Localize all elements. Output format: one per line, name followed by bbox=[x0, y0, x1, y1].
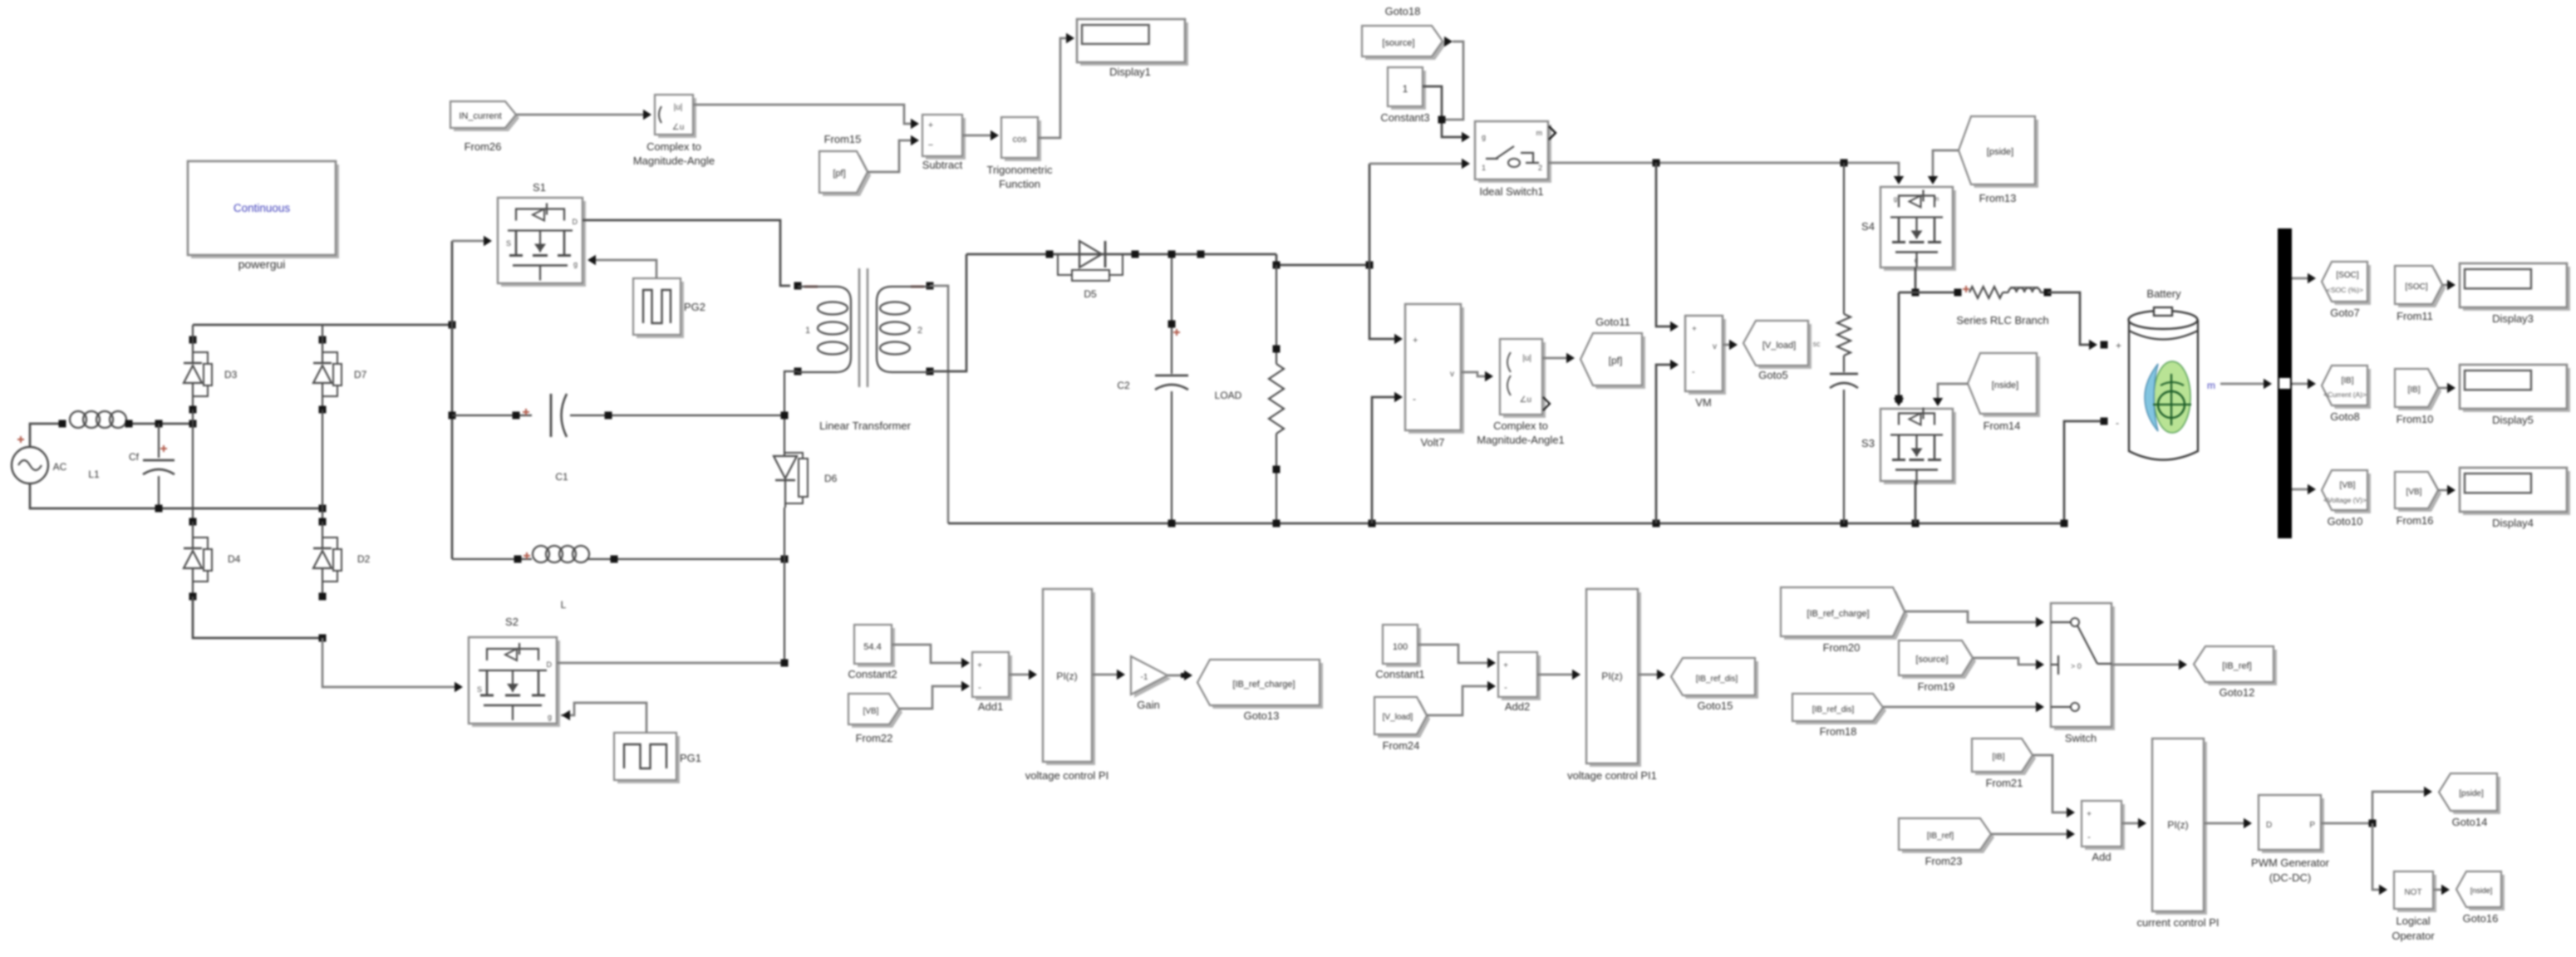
svg-text:+: + bbox=[977, 661, 982, 670]
svg-text:-: - bbox=[1504, 683, 1507, 693]
svg-text:Complex to: Complex to bbox=[646, 140, 701, 153]
bus selector bar bbox=[2278, 228, 2292, 538]
svg-text:From19: From19 bbox=[1918, 680, 1955, 693]
svg-text:<SOC (%)>: <SOC (%)> bbox=[2327, 286, 2363, 294]
svg-text:Goto13: Goto13 bbox=[1244, 709, 1280, 722]
svg-text:1: 1 bbox=[805, 326, 810, 336]
svg-text:D3: D3 bbox=[224, 369, 238, 380]
svg-text:D6: D6 bbox=[824, 473, 838, 484]
svg-text:Display4: Display4 bbox=[2492, 517, 2534, 529]
svg-text:Switch: Switch bbox=[2065, 732, 2097, 744]
svg-text:AC: AC bbox=[53, 461, 67, 473]
resistor LOAD branch bbox=[1276, 265, 1277, 364]
svg-text:Battery: Battery bbox=[2146, 287, 2181, 300]
wire node B vertical x544 bbox=[451, 241, 454, 559]
svg-text:[IB_ref_dis]: [IB_ref_dis] bbox=[1812, 705, 1855, 714]
svg-text:Display5: Display5 bbox=[2492, 414, 2534, 426]
svg-text:|u|: |u| bbox=[1522, 354, 1531, 363]
svg-text:[IB_ref_charge]: [IB_ref_charge] bbox=[1232, 680, 1295, 690]
wire S3 source to bottom rail bbox=[1915, 481, 1917, 523]
svg-text:Magnitude-Angle1: Magnitude-Angle1 bbox=[1477, 434, 1565, 446]
svg-text:[IB_ref]: [IB_ref] bbox=[1927, 832, 1954, 841]
svg-text:[pside]: [pside] bbox=[1987, 147, 2013, 157]
svg-text:[V_load]: [V_load] bbox=[1383, 713, 1413, 722]
Series RLC Branch resistor bbox=[1963, 286, 1969, 292]
bridge bottom bus wire bbox=[189, 593, 197, 601]
svg-text:Goto16: Goto16 bbox=[2463, 912, 2499, 925]
block Add2 bbox=[1502, 655, 1541, 700]
Goto13 tag IB_ref_charge bbox=[1201, 663, 1323, 709]
svg-text:[pf]: [pf] bbox=[833, 169, 845, 179]
svg-text:NOT: NOT bbox=[2404, 888, 2421, 897]
svg-text:∠u: ∠u bbox=[672, 123, 685, 132]
wire PI1 to Goto15 bbox=[1638, 674, 1661, 676]
wire Add2 to voltage control PI1 bbox=[1537, 674, 1576, 676]
svg-text:S4: S4 bbox=[1861, 220, 1875, 233]
wire PI to Gain bbox=[1092, 674, 1121, 676]
svg-text:∠u: ∠u bbox=[1519, 395, 1531, 405]
wire Volt7 to CMA1 bbox=[1461, 372, 1489, 376]
svg-text:(DC-DC): (DC-DC) bbox=[2269, 871, 2312, 884]
From14 tag nside bbox=[1971, 356, 2040, 417]
From23 tag IB_ref bbox=[1902, 822, 1994, 853]
From22 tag VB bbox=[852, 697, 902, 728]
wire NOT to Goto16 bbox=[2433, 889, 2446, 891]
svg-text:From20: From20 bbox=[1823, 641, 1861, 654]
svg-text:Function: Function bbox=[999, 178, 1040, 190]
svg-text:D: D bbox=[2266, 821, 2272, 830]
svg-text:Goto12: Goto12 bbox=[2220, 686, 2255, 699]
wire S1 source connection bbox=[452, 240, 488, 243]
svg-text:Linear Transformer: Linear Transformer bbox=[819, 420, 911, 432]
wire From24 to Add2 bbox=[1427, 686, 1492, 715]
block Trigonometric Function cos bbox=[1005, 120, 1041, 161]
bottom rail of output stage bbox=[948, 523, 2064, 525]
svg-text:Continuous: Continuous bbox=[234, 202, 291, 214]
svg-text:Goto14: Goto14 bbox=[2452, 816, 2488, 828]
block voltage control PI1 bbox=[1590, 592, 1641, 767]
svg-text:[IB]: [IB] bbox=[2341, 376, 2353, 385]
svg-text:100: 100 bbox=[1393, 642, 1408, 652]
svg-text:From16: From16 bbox=[2397, 514, 2434, 527]
diode D6 bbox=[784, 448, 785, 456]
Series RLC Branch inductor bbox=[2003, 292, 2008, 293]
svg-text:D: D bbox=[547, 660, 553, 669]
wire PI to PWM Generator bbox=[2204, 822, 2248, 825]
svg-text:+: + bbox=[1503, 661, 1508, 670]
svg-text:Logical: Logical bbox=[2396, 915, 2430, 927]
wire node C down to S3 drain bbox=[1898, 292, 1900, 403]
svg-text:S: S bbox=[506, 239, 511, 248]
svg-text:2: 2 bbox=[1538, 164, 1542, 172]
wire Switch to Goto12 bbox=[2111, 664, 2183, 666]
svg-text:Goto5: Goto5 bbox=[1758, 369, 1787, 381]
svg-text:Operator: Operator bbox=[2392, 930, 2435, 942]
svg-text:d: d bbox=[1915, 257, 1918, 264]
diode D3 bbox=[192, 325, 194, 363]
svg-text:current control PI: current control PI bbox=[2137, 916, 2220, 929]
svg-text:[IB_ref]: [IB_ref] bbox=[2222, 661, 2251, 671]
svg-text:Subtract: Subtract bbox=[922, 159, 963, 171]
Gain block -1 bbox=[1134, 660, 1171, 698]
wire L1 to bridge node A bbox=[125, 423, 193, 425]
svg-text:Goto11: Goto11 bbox=[1595, 316, 1630, 328]
svg-text:Goto10: Goto10 bbox=[2328, 515, 2363, 528]
svg-text:[IB_ref_charge]: [IB_ref_charge] bbox=[1807, 609, 1869, 619]
svg-text:+: + bbox=[2087, 810, 2092, 819]
svg-text:Display3: Display3 bbox=[2492, 312, 2534, 325]
svg-text:[nside]: [nside] bbox=[2470, 886, 2493, 895]
svg-text:[nside]: [nside] bbox=[1992, 380, 2018, 390]
svg-text:D4: D4 bbox=[228, 553, 241, 565]
svg-text:Cf: Cf bbox=[129, 451, 140, 463]
svg-text:VM: VM bbox=[1695, 396, 1712, 409]
svg-text:Add2: Add2 bbox=[1505, 700, 1530, 713]
wire Volt7 minus to bottom rail bbox=[1372, 397, 1399, 523]
diode D4 bbox=[189, 518, 197, 526]
wire From21 to Add bbox=[2033, 755, 2071, 812]
wire From15 to Subtract bbox=[868, 140, 915, 172]
svg-text:m: m bbox=[2207, 380, 2215, 391]
svg-text:-1: -1 bbox=[1141, 673, 1148, 682]
capacitor C2 branch bbox=[1171, 254, 1172, 374]
wire Gain to Goto13 bbox=[1168, 675, 1188, 677]
svg-text:Constant3: Constant3 bbox=[1380, 111, 1429, 124]
svg-text:D5: D5 bbox=[1084, 288, 1097, 300]
Linear Transformer bbox=[794, 282, 802, 290]
node between D7 and D2 bbox=[319, 406, 327, 414]
Display4 block bbox=[2463, 471, 2570, 515]
wire CMA to Subtract bbox=[693, 105, 915, 124]
svg-text:Goto7: Goto7 bbox=[2330, 307, 2359, 319]
svg-text:S1: S1 bbox=[533, 181, 546, 194]
Goto14 tag pside bbox=[2442, 777, 2500, 814]
wire bridge to S2 source bbox=[322, 638, 459, 687]
svg-text:From18: From18 bbox=[1820, 725, 1857, 738]
diode D2 bbox=[322, 522, 323, 548]
Goto8 tag IB bbox=[2325, 369, 2371, 409]
wire D6 to S2 drain node bbox=[784, 508, 785, 663]
svg-text:From24: From24 bbox=[1383, 739, 1420, 752]
svg-text:From15: From15 bbox=[824, 133, 862, 145]
wire Add to current control PI bbox=[2121, 822, 2142, 825]
svg-text:[VB]: [VB] bbox=[2340, 481, 2356, 490]
Constant2 block 54.4 bbox=[858, 628, 895, 667]
svg-text:Magnitude-Angle: Magnitude-Angle bbox=[633, 155, 715, 167]
svg-text:m: m bbox=[1934, 195, 1939, 203]
wire PG2 to S1 gate bbox=[592, 260, 656, 278]
svg-text:v: v bbox=[1713, 342, 1717, 351]
svg-text:[VB]: [VB] bbox=[863, 707, 879, 716]
svg-text:m: m bbox=[1536, 129, 1543, 137]
Switch block bbox=[2054, 606, 2115, 730]
svg-text:-: - bbox=[2116, 417, 2119, 429]
svg-text:<Voltage (V)>: <Voltage (V)> bbox=[2323, 496, 2367, 504]
wire AC top to L1 bbox=[30, 424, 66, 447]
svg-text:PI(z): PI(z) bbox=[1056, 670, 1077, 682]
svg-text:[IB_ref_dis]: [IB_ref_dis] bbox=[1696, 675, 1738, 684]
wire transformer primary bottom to D6 bbox=[784, 371, 798, 448]
svg-text:2: 2 bbox=[917, 326, 922, 336]
inductor L bbox=[452, 558, 532, 560]
svg-text:PG1: PG1 bbox=[680, 752, 701, 764]
Display3 block bbox=[2463, 267, 2570, 311]
wire Goto18 tag to gate node bbox=[1442, 42, 1463, 120]
svg-text:C1: C1 bbox=[555, 471, 568, 483]
capacitor C1 bbox=[452, 415, 532, 416]
svg-text:Display1: Display1 bbox=[1109, 66, 1151, 78]
diode D7 bbox=[322, 325, 323, 363]
svg-text:[pside]: [pside] bbox=[2459, 789, 2484, 798]
block current control PI bbox=[2156, 742, 2207, 915]
block Subtract bbox=[926, 118, 966, 159]
wire battery minus to bottom rail bbox=[2101, 418, 2108, 425]
svg-text:cos: cos bbox=[1012, 135, 1027, 145]
wire Add1 to voltage control PI bbox=[1009, 674, 1033, 676]
wire From16 to Display4 bbox=[2438, 489, 2451, 492]
svg-text:PI(z): PI(z) bbox=[2167, 819, 2188, 831]
battery recycle icon bbox=[2154, 361, 2190, 433]
snubber branch capacitor bbox=[1843, 356, 1845, 372]
svg-text:voltage control PI1: voltage control PI1 bbox=[1567, 769, 1657, 782]
svg-text:S: S bbox=[477, 685, 482, 694]
svg-text:g: g bbox=[1894, 195, 1897, 203]
svg-text:Trigonometric: Trigonometric bbox=[987, 164, 1053, 176]
pulse generator PG1 bbox=[617, 736, 680, 783]
svg-text:Ideal Switch1: Ideal Switch1 bbox=[1479, 185, 1543, 198]
svg-text:From26: From26 bbox=[465, 140, 502, 153]
inductor L1 bbox=[70, 411, 86, 428]
wire bus to Goto10 bbox=[2292, 488, 2312, 491]
From18 tag IB_ref_dis bbox=[1796, 697, 1886, 724]
svg-text:Series RLC Branch: Series RLC Branch bbox=[1956, 314, 2048, 326]
svg-text:-: - bbox=[2087, 832, 2091, 842]
wire secondary top to bottom rail bbox=[930, 286, 948, 523]
block Complex to Magnitude-Angle1 bbox=[1503, 342, 1546, 418]
svg-text:-: - bbox=[1692, 367, 1695, 377]
wire PWM to Goto14 and NOT bbox=[2321, 792, 2428, 823]
wire Series RLC to battery plus bbox=[2048, 292, 2094, 345]
wire From19 to Switch in2 bbox=[1973, 658, 2040, 665]
svg-text:Add1: Add1 bbox=[978, 700, 1003, 713]
svg-text:[pf]: [pf] bbox=[1609, 355, 1623, 366]
wire rail to VM plus bbox=[1656, 163, 1674, 326]
diode D5 bbox=[1079, 241, 1080, 267]
wire S1 drain to transformer primary top bbox=[583, 220, 790, 286]
wire secondary bottom up to top rail bbox=[930, 254, 966, 371]
block VM voltage measurement bbox=[1689, 319, 1726, 395]
svg-text:powergui: powergui bbox=[238, 258, 286, 271]
svg-text:D: D bbox=[573, 218, 578, 226]
svg-text:LOAD: LOAD bbox=[1215, 390, 1242, 401]
svg-text:From21: From21 bbox=[1986, 777, 2023, 789]
svg-text:1: 1 bbox=[1482, 164, 1486, 172]
svg-text:Gain: Gain bbox=[1137, 699, 1159, 711]
Goto16 tag nside bbox=[2460, 875, 2505, 910]
svg-text:S3: S3 bbox=[1861, 437, 1875, 449]
wire From26 to Complex to Magnitude-Angle bbox=[516, 114, 647, 116]
svg-text:[V_load]: [V_load] bbox=[1762, 341, 1796, 351]
Constant3 block bbox=[1391, 71, 1426, 110]
svg-text:C2: C2 bbox=[1117, 380, 1130, 391]
svg-text:L1: L1 bbox=[88, 469, 100, 480]
svg-text:From22: From22 bbox=[856, 732, 893, 744]
node C horizontal wire bbox=[1899, 292, 1958, 294]
svg-text:Goto8: Goto8 bbox=[2330, 410, 2359, 423]
wire PG1 to S2 gate bbox=[561, 703, 646, 733]
svg-text:54.4: 54.4 bbox=[863, 642, 881, 652]
bridge top bus bbox=[193, 324, 452, 326]
Constant1 block 100 bbox=[1386, 628, 1421, 667]
svg-text:S2: S2 bbox=[505, 616, 519, 628]
From10 tag IB bbox=[2398, 372, 2441, 410]
wire VM to Goto5 bbox=[1723, 344, 1733, 346]
Goto5 tag V_load bbox=[1747, 324, 1812, 369]
Goto12 tag IB_ref bbox=[2197, 650, 2277, 685]
From13 tag pside bbox=[1962, 120, 2038, 188]
svg-text:|u|: |u| bbox=[674, 103, 683, 112]
wire From14 to S3 gate bbox=[1938, 384, 1968, 403]
svg-text:Volt7: Volt7 bbox=[1421, 436, 1445, 449]
svg-text:From10: From10 bbox=[2397, 413, 2434, 425]
svg-text:Constant2: Constant2 bbox=[848, 668, 897, 680]
svg-text:+: + bbox=[928, 120, 933, 130]
wire Subtract to Trigonometric Function bbox=[962, 135, 995, 137]
svg-text:IN_current: IN_current bbox=[459, 111, 501, 121]
svg-text:[IB]: [IB] bbox=[2407, 385, 2420, 395]
From20 tag IB_ref_charge bbox=[1784, 591, 1908, 640]
svg-text:g: g bbox=[548, 713, 552, 721]
block Add bbox=[2085, 804, 2125, 850]
block Add1 bbox=[976, 655, 1012, 700]
block Complex to Magnitude-Angle U-CMA bbox=[658, 98, 696, 138]
Display1 block bbox=[1080, 22, 1188, 66]
pulse generator PG2 bbox=[637, 282, 684, 338]
wire bus to Goto8 bbox=[2292, 383, 2312, 385]
Ideal Switch1 block bbox=[1478, 125, 1551, 183]
From21 tag IB bbox=[1975, 742, 2036, 775]
Goto10 tag VB bbox=[2325, 474, 2371, 513]
wire CMA1 to Goto11 bbox=[1542, 357, 1571, 360]
svg-text:Goto18: Goto18 bbox=[1385, 5, 1421, 17]
svg-text:From23: From23 bbox=[1925, 855, 1963, 867]
svg-text:[IB]: [IB] bbox=[1992, 753, 2004, 762]
svg-text:[source]: [source] bbox=[1915, 655, 1948, 665]
Goto7 tag SOC bbox=[2325, 265, 2371, 305]
svg-text:sc: sc bbox=[1813, 340, 1821, 348]
svg-text:[source]: [source] bbox=[1382, 38, 1414, 48]
svg-text:+: + bbox=[1413, 336, 1418, 346]
From11 tag SOC bbox=[2398, 269, 2446, 307]
svg-text:v: v bbox=[1450, 370, 1454, 379]
wire Constant3 to Ideal Switch1 gate bbox=[1423, 86, 1466, 137]
svg-text:+: + bbox=[2116, 340, 2121, 351]
wire S4 source to node C bbox=[1915, 267, 1917, 292]
wire AC bottom rail bbox=[30, 483, 322, 508]
wire From18 to Switch in3 bbox=[1883, 706, 2040, 709]
svg-text:voltage control PI: voltage control PI bbox=[1025, 769, 1109, 782]
wire From11 to Display3 bbox=[2442, 284, 2451, 287]
wire Constant2 to Add1 bbox=[892, 645, 966, 663]
From16 tag VB bbox=[2398, 475, 2441, 512]
svg-text:g: g bbox=[573, 260, 578, 268]
svg-text:PG2: PG2 bbox=[684, 301, 705, 313]
svg-text:-: - bbox=[978, 683, 981, 693]
From26 tag IN_current bbox=[454, 105, 519, 131]
node between D3 and D4 bbox=[189, 406, 197, 414]
svg-text:-: - bbox=[1413, 393, 1416, 405]
svg-text:D2: D2 bbox=[357, 553, 371, 565]
svg-text:PI(z): PI(z) bbox=[1601, 670, 1622, 682]
wire rail step at LOAD bbox=[1276, 254, 1369, 265]
wire rail into Ideal Switch1 bbox=[1369, 163, 1466, 165]
wire Ideal Switch1 to S4 drain rail bbox=[1548, 163, 1899, 181]
svg-text:From13: From13 bbox=[1979, 192, 2017, 204]
Logical Operator NOT block bbox=[2397, 875, 2436, 912]
svg-text:P: P bbox=[2309, 821, 2315, 830]
wire bus to Goto7 bbox=[2292, 277, 2312, 280]
block voltage control PI bbox=[1046, 592, 1095, 765]
svg-text:From14: From14 bbox=[1984, 420, 2021, 432]
svg-text:+: + bbox=[1692, 325, 1697, 334]
PWM Generator block bbox=[2262, 798, 2324, 853]
svg-text:[SOC]: [SOC] bbox=[2405, 282, 2427, 292]
From24 tag V_load bbox=[1378, 700, 1430, 738]
From19 tag source bbox=[1902, 644, 1976, 679]
svg-text:PWM Generator: PWM Generator bbox=[2251, 856, 2330, 869]
wire bottom rail to VM minus bbox=[1656, 365, 1674, 523]
top rail of output stage bbox=[966, 253, 1276, 256]
block Volt7 voltage measurement bbox=[1408, 307, 1464, 434]
AC voltage source bbox=[12, 447, 48, 483]
svg-text:−: − bbox=[928, 140, 933, 150]
svg-text:<Current (A)>: <Current (A)> bbox=[2323, 390, 2367, 399]
wire From20 to Switch in1 bbox=[1905, 611, 2040, 622]
svg-text:Add: Add bbox=[2092, 851, 2111, 863]
wire Constant1 to Add2 bbox=[1418, 645, 1492, 663]
svg-text:> 0: > 0 bbox=[2071, 662, 2082, 670]
wire From22 to Add1 bbox=[899, 686, 966, 709]
svg-text:[SOC]: [SOC] bbox=[2336, 271, 2358, 280]
Display5 block bbox=[2463, 368, 2570, 412]
wire From23 to Add bbox=[1991, 833, 2071, 836]
powergui block bbox=[191, 164, 339, 258]
wire S2 drain to node x944 bbox=[557, 662, 784, 665]
svg-text:1: 1 bbox=[1403, 83, 1408, 95]
svg-text:Goto15: Goto15 bbox=[1698, 699, 1733, 712]
svg-text:D7: D7 bbox=[354, 369, 367, 380]
wire From13 to S4 gate bbox=[1933, 150, 1959, 181]
Goto15 tag IB_ref_dis bbox=[1674, 661, 1758, 699]
wire cos to Display1 bbox=[1038, 38, 1070, 138]
svg-text:Constant1: Constant1 bbox=[1375, 668, 1424, 680]
svg-text:L: L bbox=[561, 599, 567, 611]
svg-text:[VB]: [VB] bbox=[2406, 488, 2422, 497]
vertical node wire x1648 to Volt7 bbox=[1369, 164, 1399, 339]
svg-text:Complex to: Complex to bbox=[1493, 420, 1548, 432]
svg-text:From11: From11 bbox=[2397, 310, 2433, 322]
snubber branch resistor bbox=[1843, 163, 1845, 314]
wire From10 to Display5 bbox=[2438, 387, 2451, 390]
svg-text:g: g bbox=[1482, 133, 1486, 141]
